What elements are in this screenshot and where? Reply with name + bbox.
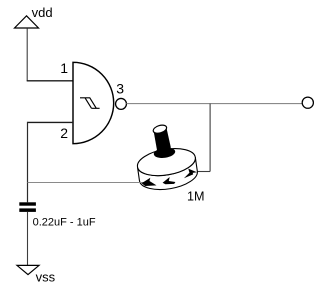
- wire branch to potentiometer left terminal: [28, 182, 147, 184]
- svg-text:vss: vss: [36, 270, 56, 285]
- potentiometer shaft top cap: [152, 124, 167, 135]
- ground symbol vss: [17, 265, 39, 274]
- potentiometer R1 body side wall: [138, 157, 198, 189]
- inverter output bubble: [116, 98, 127, 109]
- output terminal: [302, 97, 313, 108]
- wire feedback vertical: [209, 104, 211, 172]
- svg-text:3: 3: [116, 81, 124, 97]
- svg-text:1M: 1M: [187, 189, 205, 203]
- hysteresis symbol: [80, 98, 100, 109]
- potentiometer wiper terminal lug: [163, 177, 176, 184]
- Schmitt trigger inverter U1 body: [73, 62, 114, 143]
- wire capacitor to vss: [27, 212, 29, 266]
- wire pin 1 input: [27, 80, 73, 82]
- wire left rail down to capacitor: [27, 122, 29, 203]
- capacitor C1 top plate: [19, 202, 36, 205]
- wire feedback to potentiometer right terminal: [196, 171, 210, 173]
- svg-text:2: 2: [60, 125, 68, 141]
- potentiometer right terminal lug: [184, 169, 197, 179]
- potentiometer R1 body top: [135, 145, 197, 180]
- potentiometer left terminal lug: [142, 178, 157, 186]
- power symbol vdd: [15, 16, 39, 28]
- svg-text:0.22uF - 1uF: 0.22uF - 1uF: [33, 216, 96, 228]
- potentiometer shaft foot: [153, 146, 176, 159]
- svg-text:vdd: vdd: [32, 5, 53, 20]
- svg-text:1: 1: [60, 60, 68, 76]
- wire output: [126, 103, 302, 105]
- wire pin 2 input: [28, 121, 74, 123]
- capacitor C1 bottom plate: [19, 208, 36, 212]
- wire vdd vertical: [26, 29, 28, 81]
- potentiometer shaft: [154, 128, 171, 151]
